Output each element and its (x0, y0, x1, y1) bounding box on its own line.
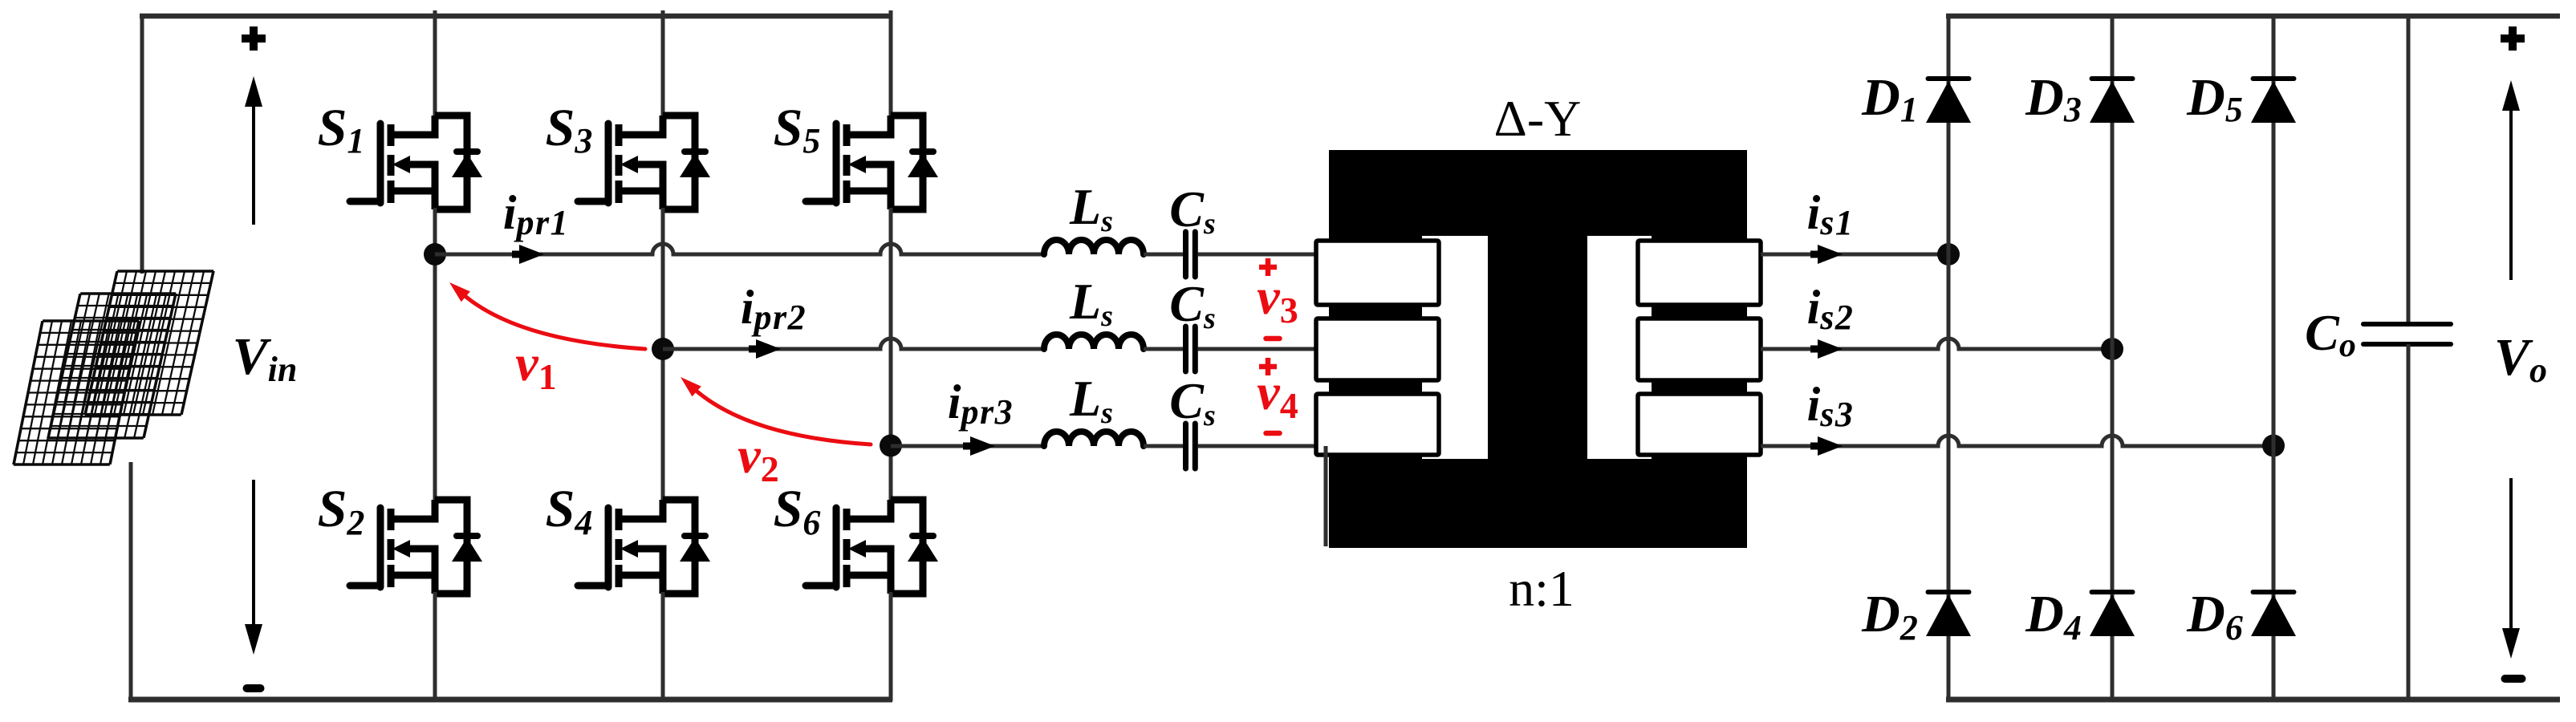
wire Co leg upper (2407, 15, 2411, 324)
node phase B junction (652, 338, 674, 360)
wire phase 1 line with Ls Cs (435, 244, 1044, 254)
minus sign v4 (1266, 431, 1280, 436)
wire rectifier leg 3 (2272, 14, 2276, 701)
wire delta return (left edge of core) (1324, 446, 1328, 546)
wire rectifier top rail (1946, 14, 2560, 19)
wire input bottom rail (128, 697, 892, 703)
wire Co leg lower (2407, 344, 2411, 701)
arrow Vo down (2509, 478, 2513, 633)
node phase A junction (424, 243, 446, 266)
arrow Vin down (252, 480, 255, 629)
wire phase 3 line with Ls Cs (891, 444, 1044, 448)
wire leg 1 lower (433, 592, 437, 701)
PV panel grid sheet 2 (middle) (48, 294, 176, 438)
diode D4 (2092, 590, 2133, 594)
transistor S1 (MOSFET) (350, 198, 380, 205)
transformer core window left (1422, 236, 1488, 459)
wire leg 2 middle (661, 208, 665, 501)
wire input top rail (140, 14, 892, 19)
wire leg 3 lower (889, 592, 893, 701)
wire left rail top segment (140, 14, 144, 274)
PV panel grid sheet 1 (back, top-right) (85, 271, 213, 415)
wire leg 1 upper (433, 10, 437, 117)
transistor S2 (MOSFET) (350, 582, 380, 590)
wire phase 2 line with Ls Cs (663, 339, 1044, 349)
svg-text:Δ-Y: Δ-Y (1494, 90, 1582, 147)
arrow Vo up (2509, 106, 2513, 280)
wire leg 3 middle (889, 208, 893, 501)
transformer core window right (1587, 236, 1652, 459)
minus sign Vin (247, 684, 261, 692)
transformer core (black block) (1329, 150, 1747, 548)
diode D6 (2253, 590, 2294, 594)
wire left rail bottom segment (129, 462, 133, 701)
wire rectifier leg 2 (2111, 14, 2115, 701)
diode D5 (2253, 76, 2294, 81)
capacitor Co plates (2363, 322, 2451, 327)
wire leg 2 upper (661, 10, 665, 117)
wire leg 2 lower (661, 592, 665, 701)
node s3 junction (2262, 435, 2285, 457)
arc v1 (red arrow) (462, 294, 645, 349)
wire leg 3 upper (889, 10, 893, 117)
arrow Vin up (252, 102, 255, 225)
transformer secondary windings (3 coils) (1638, 241, 1761, 305)
transistor S3 (MOSFET) (578, 198, 608, 205)
node s1 junction (1937, 243, 1960, 266)
diode D3 (2092, 76, 2133, 81)
plus sign v3 (1259, 265, 1277, 270)
diode D1 (1928, 76, 1969, 81)
svg-text:n:1: n:1 (1509, 560, 1574, 617)
wire leg 1 middle (433, 208, 437, 501)
transistor S4 (MOSFET) (578, 582, 608, 590)
minus sign Vo (2505, 675, 2522, 683)
wire rectifier bottom rail (1946, 697, 2560, 703)
plus sign v4 (1259, 364, 1277, 370)
minus sign v3 (1266, 336, 1280, 342)
diode D2 (1928, 590, 1969, 594)
wire secondary line s3 (1761, 436, 2273, 446)
wire rectifier leg 1 (1947, 14, 1951, 701)
node phase C junction (880, 435, 902, 457)
wire secondary line s1 (1761, 253, 1948, 257)
PV panel grid sheet 3 (front, bottom-left) (14, 321, 139, 464)
wire secondary line s2 (1761, 339, 2112, 349)
transistor S6 (MOSFET) (806, 582, 836, 590)
arc v2 (red arrow) (693, 388, 871, 444)
plus sign Vo (2501, 34, 2525, 43)
transistor S5 (MOSFET) (806, 198, 836, 205)
plus sign Vin (242, 34, 266, 43)
transformer primary windings (3 coils) (1316, 241, 1439, 305)
node s2 junction (2101, 338, 2123, 360)
